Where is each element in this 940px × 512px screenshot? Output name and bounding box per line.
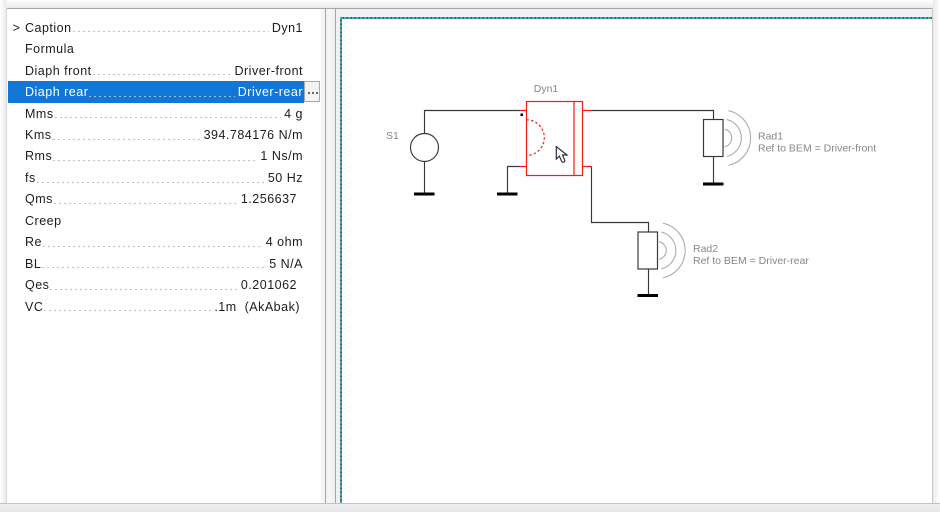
wire from S1 top to Dyn1 left terminal	[425, 111, 521, 134]
right schematic panel	[336, 9, 932, 503]
ground of Dyn1	[497, 193, 518, 196]
wire from Dyn1 bottom-left terminal to ground	[508, 167, 521, 193]
Rad2 label	[693, 243, 809, 267]
S1 label	[386, 130, 399, 142]
ellipsis editor button	[304, 81, 320, 102]
left property panel	[7, 9, 326, 503]
Rad1 label	[758, 131, 876, 155]
ground of Rad2	[638, 294, 659, 297]
ground of Rad1	[703, 183, 724, 186]
ground of S1	[414, 193, 435, 196]
mouse cursor	[556, 147, 567, 163]
wire from Dyn1 right-top terminal to Rad1	[592, 111, 714, 120]
source S1 circle	[411, 134, 439, 193]
Dyn1 label	[534, 83, 559, 95]
radiator Rad1	[704, 111, 751, 183]
splitter	[326, 9, 335, 503]
wire from Dyn1 right-bottom terminal to Rad2	[592, 167, 649, 233]
radiator Rad2	[638, 223, 685, 294]
driver Dyn1	[519, 102, 592, 176]
